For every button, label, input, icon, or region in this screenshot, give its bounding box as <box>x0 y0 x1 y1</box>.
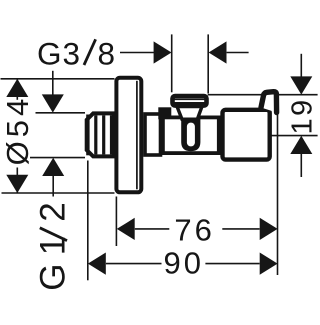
cap thread lines <box>174 99 206 103</box>
outlet body <box>223 110 270 160</box>
svg-text:90: 90 <box>164 246 204 281</box>
arrow O54 up <box>6 79 28 97</box>
wire 76 ext line <box>115 197 117 247</box>
svg-text:Ø54: Ø54 <box>0 95 35 166</box>
wire 19 bottom ext line <box>271 135 318 137</box>
wire O54 bottom ext line <box>2 192 115 194</box>
wire 19 dim upper seg <box>300 54 302 77</box>
bonnet taper <box>177 107 202 120</box>
svg-text:76: 76 <box>174 213 214 248</box>
arrow G3/8 label right <box>154 41 172 63</box>
wire G1/2 leader <box>52 176 54 197</box>
wire 19 dim lower seg <box>300 154 302 177</box>
thread lines <box>88 115 112 156</box>
flange disc <box>116 78 141 193</box>
arrow 90 left <box>88 253 106 275</box>
wire tail of right top arrow <box>227 52 249 54</box>
svg-text:8: 8 <box>98 35 116 71</box>
wire G3/8 label line <box>120 52 154 54</box>
arrow G1/2 leader up <box>42 158 64 176</box>
port cap G3/8 <box>173 96 207 106</box>
wire 90 ext line <box>87 161 89 281</box>
wire thread top ext line <box>36 112 86 114</box>
arrow 90 right <box>260 253 278 275</box>
arrow top dim left-pointing <box>209 41 227 63</box>
arrow 76 right <box>260 218 278 240</box>
thread G1/2 male <box>87 113 114 156</box>
wire O54 dim line upper seg <box>16 79 18 100</box>
spindle <box>181 118 200 152</box>
label G1/2 vertical <box>34 202 73 290</box>
arrow 76 left <box>117 218 135 240</box>
arrow G3/8 leader down <box>42 94 64 112</box>
wire thread bottom ext line <box>30 157 85 159</box>
svg-text:9: 9 <box>286 100 318 116</box>
wire 90 dim right tail <box>205 263 259 265</box>
svg-text:1: 1 <box>286 118 318 134</box>
arrow 19 down <box>290 76 312 94</box>
wire 76 dim left tail <box>135 228 170 230</box>
handle <box>261 92 277 113</box>
label G3/8 <box>37 35 115 71</box>
wire ext line left of top dim <box>171 34 173 92</box>
neck <box>145 114 161 155</box>
wire right ext line <box>277 96 279 275</box>
arrow 19 up <box>290 136 312 154</box>
svg-text:1: 1 <box>34 236 73 255</box>
arrow O54 down <box>6 175 28 193</box>
wire 76 dim right tail <box>222 228 259 230</box>
flange face line <box>136 81 138 190</box>
svg-text:G: G <box>37 35 62 71</box>
wire 90 dim left tail <box>106 263 162 265</box>
wire O54 top ext line <box>1 78 115 80</box>
collar <box>158 107 171 119</box>
valve body <box>163 117 219 153</box>
wire G3/8 leader down <box>52 71 54 95</box>
wire ext line right of top dim <box>207 34 209 93</box>
spindle slot <box>187 123 195 147</box>
svg-text:3: 3 <box>63 35 81 71</box>
wire O54 dim line lower seg <box>16 168 18 194</box>
slash of G1/2 <box>40 228 67 241</box>
svg-text:2: 2 <box>34 202 73 221</box>
slash of G3/8 <box>84 39 96 65</box>
svg-text:G: G <box>34 263 73 290</box>
wire 19 top ext line <box>208 94 318 96</box>
